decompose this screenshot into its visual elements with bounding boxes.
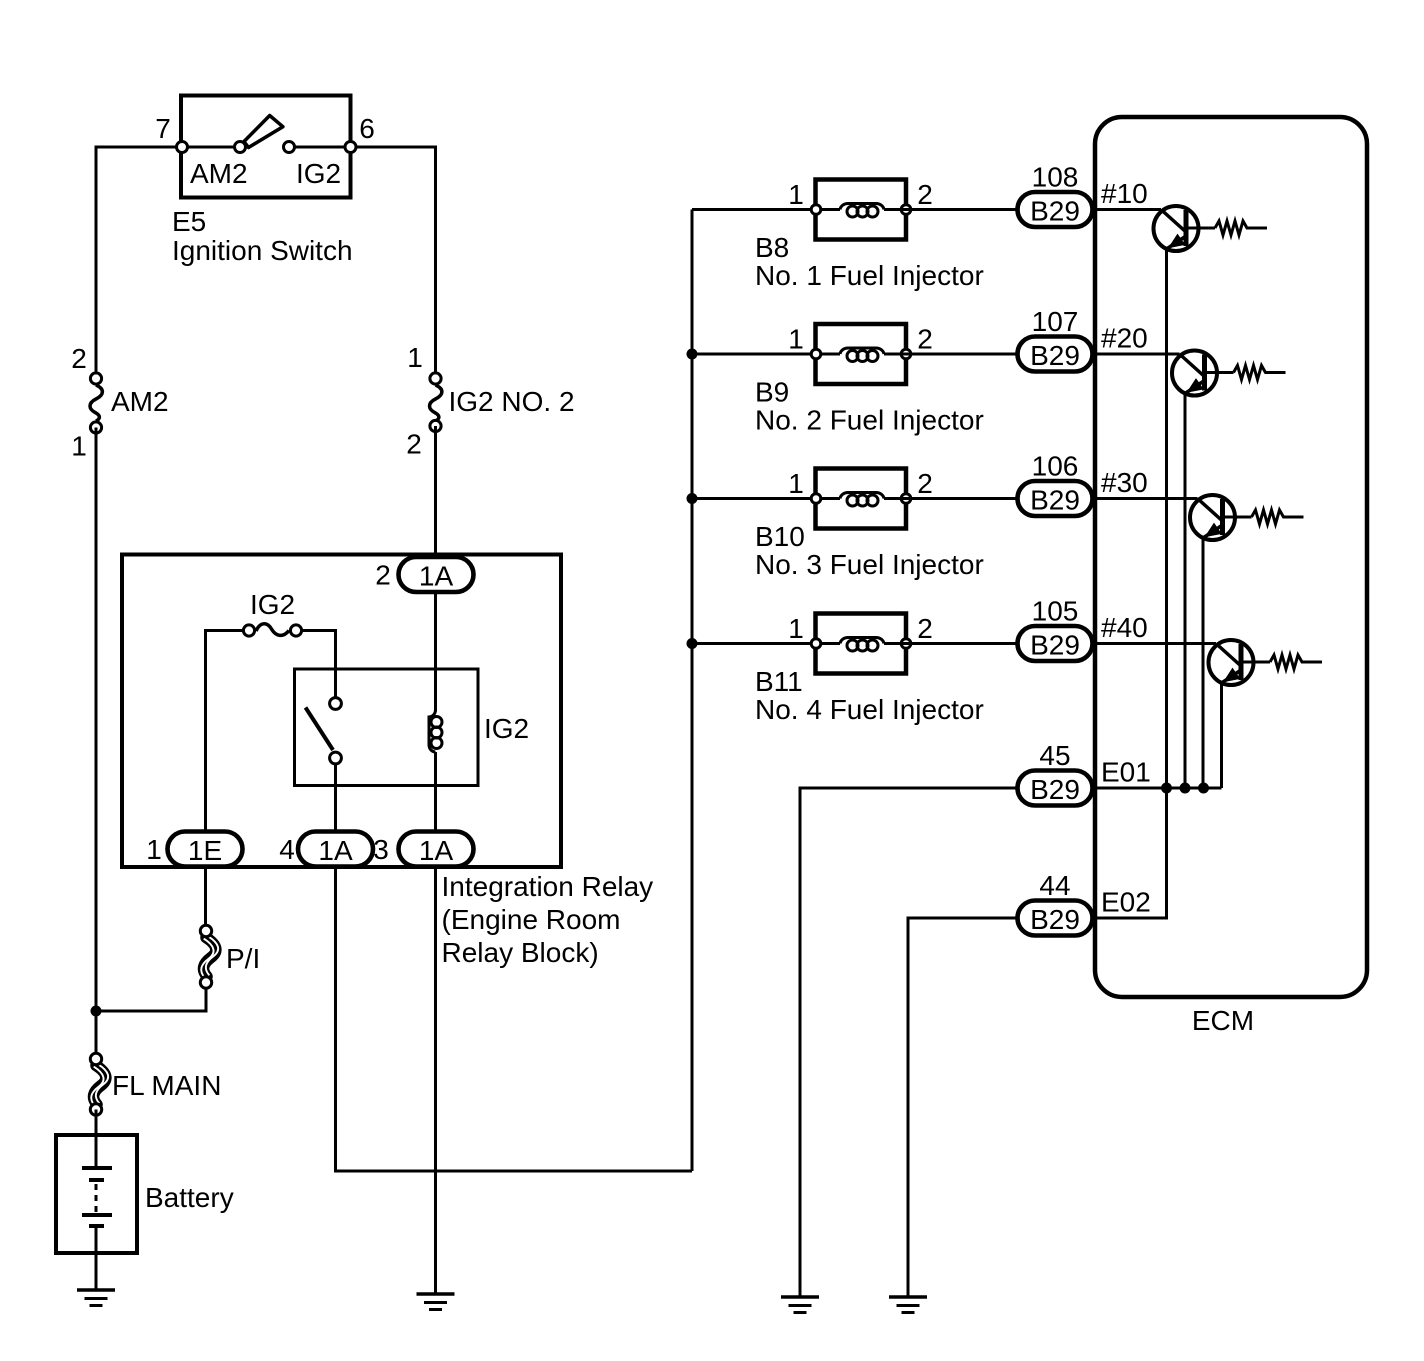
svg-text:1A: 1A: [419, 561, 454, 592]
relay inner box: [295, 669, 479, 786]
svg-text:1A: 1A: [318, 835, 353, 866]
transistor driver #20: [1172, 351, 1234, 396]
fuel injector B11: [755, 613, 984, 725]
resistor #40: [1270, 655, 1322, 669]
label E5 Ignition Switch: [172, 206, 353, 266]
ignition switch lever: [244, 116, 283, 148]
svg-text:7: 7: [155, 113, 171, 144]
transistor driver #30: [1190, 495, 1252, 540]
wire injector B11 to ECM connector: [884, 642, 1019, 645]
integration relay box: [122, 555, 561, 868]
wire 1A pin3 to ground: [434, 867, 437, 1295]
connector B29 pin 108: [1018, 162, 1148, 228]
wire ECM pin #10 to transistor: [1092, 208, 1161, 211]
connector 1E pin 1: [146, 832, 242, 867]
svg-text:44: 44: [1039, 870, 1070, 901]
node feed junction row 4: [687, 638, 698, 649]
connector 1A pin 3: [373, 832, 473, 867]
pin 7: [155, 113, 187, 153]
node E01 junction 1: [1161, 783, 1172, 794]
svg-text:2: 2: [917, 324, 933, 355]
resistor #30: [1252, 510, 1304, 524]
ground E02: [889, 1297, 927, 1313]
svg-text:#40: #40: [1101, 612, 1148, 643]
svg-text:E01: E01: [1101, 757, 1151, 788]
wire junction to FL MAIN: [95, 1011, 98, 1053]
contact IG2: [284, 142, 342, 190]
svg-text:105: 105: [1032, 596, 1079, 627]
svg-text:1: 1: [146, 834, 162, 865]
svg-text:2: 2: [917, 468, 933, 499]
svg-text:1: 1: [71, 431, 87, 462]
svg-text:45: 45: [1039, 740, 1070, 771]
svg-text:ECM: ECM: [1192, 1005, 1254, 1036]
connector B29 pin 106: [1018, 451, 1148, 517]
svg-text:FL MAIN: FL MAIN: [112, 1070, 221, 1101]
ground relay: [417, 1294, 455, 1310]
svg-text:No. 3 Fuel Injector: No. 3 Fuel Injector: [755, 549, 984, 580]
svg-text:B10: B10: [755, 521, 805, 552]
battery: [56, 1135, 234, 1253]
fuse AM2: [71, 343, 168, 462]
connector B29 pin 107: [1018, 306, 1148, 372]
svg-text:IG2: IG2: [484, 713, 529, 744]
svg-text:2: 2: [71, 343, 87, 374]
svg-text:B11: B11: [755, 666, 803, 697]
svg-text:2: 2: [406, 429, 422, 460]
pin 6: [345, 113, 375, 153]
svg-text:B29: B29: [1030, 340, 1080, 371]
wire feed to injector B8: [692, 208, 840, 211]
svg-text:E5: E5: [172, 206, 206, 237]
svg-text:1: 1: [407, 342, 423, 373]
wire pin7 to left rail down to fuse AM2: [96, 147, 240, 372]
wire transistor #10 emitter to E01: [1165, 249, 1168, 788]
fuel injector B10: [755, 468, 984, 580]
wire transistor #30 emitter to E01: [1202, 538, 1205, 788]
resistor #20: [1234, 366, 1286, 380]
fusible link FL MAIN: [90, 1053, 221, 1115]
junction node battery rail: [91, 1006, 102, 1017]
svg-text:#20: #20: [1101, 323, 1148, 354]
svg-text:Ignition Switch: Ignition Switch: [172, 235, 353, 266]
wire feed to injector B10: [692, 497, 840, 500]
svg-text:1A: 1A: [419, 835, 454, 866]
connector 1A pin 2: [375, 557, 473, 592]
ground E01: [781, 1297, 819, 1313]
svg-text:IG2: IG2: [296, 158, 341, 189]
svg-text:No. 2 Fuel Injector: No. 2 Fuel Injector: [755, 405, 984, 436]
wire 1E up to IG2 fuse: [206, 631, 243, 832]
wire relay coil to 1A pin3: [434, 752, 437, 832]
fuel injector B8: [755, 179, 984, 291]
svg-text:No. 1 Fuel Injector: No. 1 Fuel Injector: [755, 260, 984, 291]
wire E01 to ground: [800, 788, 1019, 1297]
svg-text:E02: E02: [1101, 887, 1151, 918]
svg-text:2: 2: [375, 560, 391, 591]
transistor driver #40: [1209, 640, 1271, 685]
wire IG2 NO.2 fuse to relay connector 1A: [434, 426, 437, 557]
wire injector B8 to ECM connector: [884, 208, 1019, 211]
node E01 junction 3: [1198, 783, 1209, 794]
wire transistor #40 emitter to E01: [1220, 683, 1223, 788]
wire E02 to ground: [908, 918, 1019, 1297]
resistor #10: [1215, 221, 1267, 235]
fusible link P/I: [200, 925, 260, 988]
svg-text:(Engine Room: (Engine Room: [442, 904, 621, 935]
svg-text:#10: #10: [1101, 178, 1148, 209]
transistor driver #10: [1154, 206, 1216, 251]
wire feed to injector B11: [692, 642, 840, 645]
wire injector B9 to ECM connector: [884, 353, 1019, 356]
svg-text:AM2: AM2: [190, 158, 248, 189]
svg-text:4: 4: [279, 834, 295, 865]
wire P/I to junction: [96, 989, 206, 1011]
node feed junction row 2: [687, 349, 698, 360]
svg-text:1: 1: [788, 613, 804, 644]
wire E01 internal: [1092, 787, 1222, 790]
injector feed vertical wire: [691, 210, 694, 1172]
svg-text:P/I: P/I: [226, 943, 260, 974]
wire ECM pin #40 to transistor: [1092, 642, 1216, 645]
svg-text:AM2: AM2: [111, 386, 169, 417]
svg-text:2: 2: [917, 613, 933, 644]
relay coil IG2: [429, 710, 529, 752]
wire injector B10 to ECM connector: [884, 497, 1019, 500]
wire ECM pin #20 to transistor: [1092, 353, 1180, 356]
svg-text:B9: B9: [755, 377, 789, 408]
wire pin6 to right rail down to fuse IG2 NO.2: [289, 147, 436, 372]
wire IG2 fuse to relay switch: [303, 631, 336, 698]
wire battery to ground: [95, 1226, 98, 1290]
node E01 junction 2: [1180, 783, 1191, 794]
svg-text:Relay Block): Relay Block): [442, 937, 599, 968]
label ECM: [1192, 1005, 1254, 1036]
wire AM2 fuse to junction: [95, 428, 98, 1012]
svg-text:107: 107: [1032, 306, 1079, 337]
wire relay switch to 1A pin4: [334, 765, 337, 832]
wire feed to injector B9: [692, 353, 840, 356]
connector 1A pin 4: [279, 832, 373, 867]
fuse IG2 NO. 2: [406, 342, 574, 460]
svg-text:Integration Relay: Integration Relay: [442, 871, 654, 902]
contact AM2: [190, 142, 248, 190]
svg-text:B29: B29: [1030, 774, 1080, 805]
wire 1E to P/I: [204, 867, 207, 925]
connector B29 pin 44 E02: [1018, 870, 1151, 936]
svg-text:2: 2: [917, 179, 933, 210]
svg-text:B8: B8: [755, 232, 789, 263]
wire E02 internal to E01: [1092, 788, 1167, 918]
fuel injector B9: [755, 324, 984, 436]
svg-text:6: 6: [359, 113, 375, 144]
svg-text:1: 1: [788, 468, 804, 499]
svg-text:106: 106: [1032, 451, 1079, 482]
svg-text:1E: 1E: [188, 835, 222, 866]
svg-text:No. 4 Fuel Injector: No. 4 Fuel Injector: [755, 694, 984, 725]
wire 1A pin2 to relay coil: [434, 592, 437, 711]
svg-text:B29: B29: [1030, 485, 1080, 516]
svg-text:B29: B29: [1030, 630, 1080, 661]
fuse IG2 (relay): [243, 589, 301, 636]
svg-text:3: 3: [373, 834, 389, 865]
svg-text:B29: B29: [1030, 196, 1080, 227]
connector B29 pin 105: [1018, 596, 1148, 662]
svg-text:IG2 NO. 2: IG2 NO. 2: [449, 386, 575, 417]
ground battery: [77, 1290, 115, 1306]
svg-text:#30: #30: [1101, 467, 1148, 498]
wire ECM pin #30 to transistor: [1092, 497, 1198, 500]
relay switch: [306, 698, 342, 764]
ignition switch E5 box: [181, 96, 351, 198]
ECM box: [1095, 117, 1367, 997]
svg-text:B29: B29: [1030, 904, 1080, 935]
wire FL MAIN to battery: [95, 1110, 98, 1169]
wire transistor #20 emitter to E01: [1184, 394, 1187, 789]
wire 1A pin4 to injector feed line: [336, 867, 693, 1172]
svg-text:1: 1: [788, 324, 804, 355]
svg-text:Battery: Battery: [145, 1182, 234, 1213]
label integration relay: [442, 871, 654, 968]
svg-text:1: 1: [788, 179, 804, 210]
connector B29 pin 45 E01: [1018, 740, 1151, 806]
node feed junction row 3: [687, 493, 698, 504]
svg-text:IG2: IG2: [250, 589, 295, 620]
svg-text:108: 108: [1032, 162, 1079, 193]
